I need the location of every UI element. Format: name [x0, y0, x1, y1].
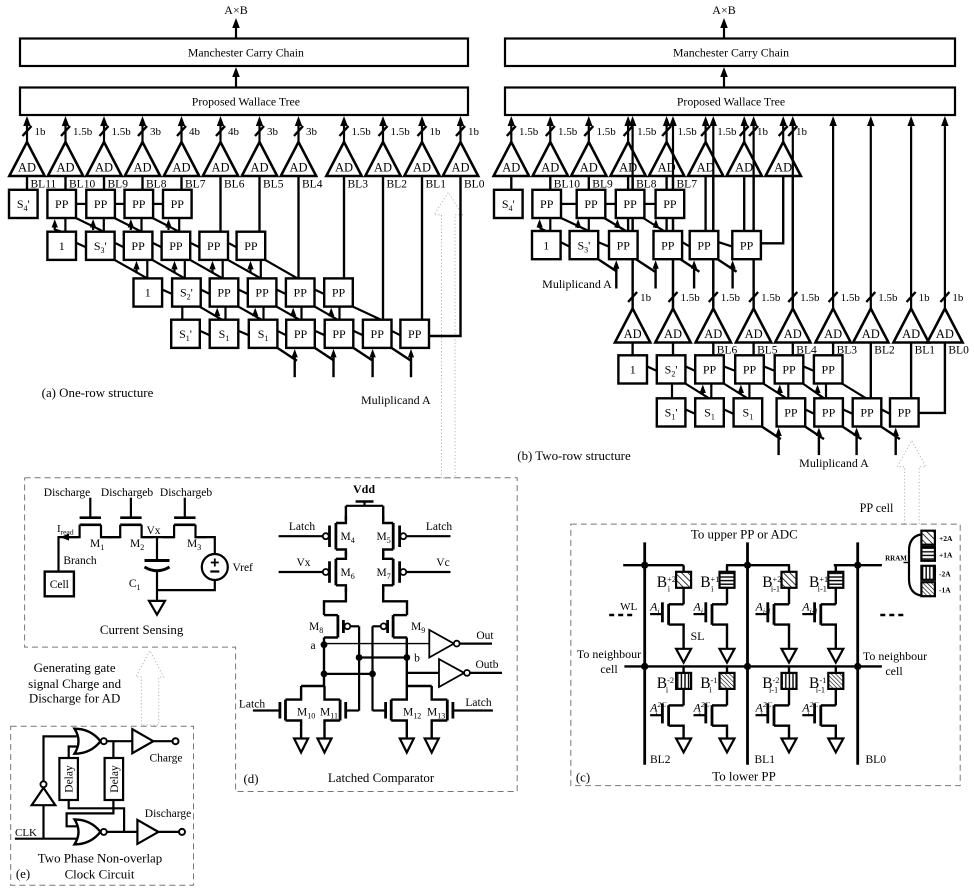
svg-text:BL0: BL0: [866, 754, 887, 766]
svg-text:BL2: BL2: [387, 178, 408, 190]
(b) row1 horizontal connectors: [561, 203, 577, 205]
Cell box: [45, 572, 74, 597]
svg-text:Out: Out: [476, 630, 494, 642]
svg-text:cell: cell: [885, 664, 903, 678]
svg-text:Two Phase Non-overlap: Two Phase Non-overlap: [38, 852, 162, 866]
svg-text:S4': S4': [17, 197, 30, 213]
svg-text:Delay: Delay: [109, 765, 121, 793]
svg-text:WL: WL: [620, 601, 637, 613]
box PP: [577, 190, 606, 218]
svg-text:Delay: Delay: [64, 765, 76, 793]
(b) lower AD slashes/labels: [628, 292, 637, 302]
svg-text:1b: 1b: [430, 126, 442, 138]
AD converter triangle: [610, 142, 645, 176]
svg-text:AD: AD: [335, 161, 353, 175]
NOR gate G1: [75, 729, 101, 754]
branch jogs to M8/M9: [324, 588, 346, 615]
outb tap from b vertical: [407, 672, 439, 674]
AD converter triangle: [494, 142, 529, 176]
svg-text:PP: PP: [217, 286, 231, 300]
svg-text:PP: PP: [207, 239, 221, 253]
svg-text:Latch: Latch: [289, 521, 315, 533]
svg-text:B-1i-1: B-1i-1: [809, 675, 826, 694]
AD converter triangle: [86, 142, 121, 176]
inverter to Discharge: [137, 820, 158, 844]
top rail 1: [623, 564, 683, 566]
AD column BL3 (a): [343, 124, 345, 142]
arrow wallace->manchester (b): [723, 75, 725, 88]
AD converter triangle: [815, 309, 850, 343]
row4 slant connectors (a): [200, 331, 210, 336]
svg-text:BL3: BL3: [348, 178, 369, 190]
a-rail2: [324, 673, 373, 675]
svg-text:PP: PP: [332, 327, 346, 341]
svg-text:1.5b: 1.5b: [721, 292, 741, 304]
Manchester Carry Chain box (b): [505, 39, 955, 67]
svg-text:PP: PP: [740, 238, 754, 252]
AD column BL10 (a): [64, 124, 66, 142]
svg-text:PP: PP: [743, 363, 757, 377]
svg-text:BL5: BL5: [263, 178, 284, 190]
svg-text:A×B: A×B: [712, 3, 735, 17]
box PP: [814, 398, 843, 426]
AD converter triangle: [571, 142, 606, 176]
svg-text:BL1: BL1: [755, 754, 776, 766]
(b) gap row1-row2: [549, 218, 551, 231]
Proposed Wallace Tree box (a): [20, 88, 468, 116]
box PP: [162, 232, 191, 260]
svg-text:RRAM: RRAM: [885, 555, 907, 563]
svg-text:B-2i-1: B-2i-1: [762, 675, 779, 694]
box PP: [286, 320, 315, 348]
svg-text:4b: 4b: [228, 126, 240, 138]
svg-text:1.5b: 1.5b: [391, 126, 411, 138]
svg-text:-1A: -1A: [939, 586, 951, 595]
box PP: [363, 320, 392, 348]
node a + rails: [323, 638, 325, 687]
svg-text:1.5b: 1.5b: [878, 292, 898, 304]
svg-text:AD: AD: [289, 161, 307, 175]
AD converter triangle: [736, 309, 771, 343]
svg-text:BL6: BL6: [224, 178, 245, 190]
svg-text:(b) Two-row structure: (b) Two-row structure: [517, 449, 631, 463]
svg-text:-2A: -2A: [939, 569, 951, 578]
svg-text:AD: AD: [413, 161, 431, 175]
AD converter triangle: [281, 142, 316, 176]
svg-text:AD: AD: [784, 327, 802, 341]
svg-text:PP: PP: [782, 363, 796, 377]
box PP: [732, 231, 761, 259]
svg-text:BL1: BL1: [426, 178, 447, 190]
box PP: [890, 398, 919, 426]
box PP: [237, 232, 266, 260]
svg-text:S2': S2': [180, 286, 193, 302]
transistor M2: [120, 516, 141, 519]
BL0 L-connector (a): [429, 176, 461, 336]
svg-text:AD: AD: [580, 161, 598, 175]
transistor M3: [174, 516, 195, 519]
AD converter triangle: [125, 142, 160, 176]
(e) dashed box: [11, 726, 194, 885]
RRAM cell B-2 i-1 bottom row: [782, 673, 797, 689]
svg-text:1b: 1b: [796, 126, 808, 138]
(b) multiplicand A arrows below row2: [615, 266, 617, 288]
(b) upper tri input lines: [510, 176, 512, 190]
svg-text:S3': S3': [577, 238, 590, 254]
box PP: [853, 398, 882, 426]
b rail: [359, 656, 407, 658]
svg-text:Vx: Vx: [146, 525, 160, 537]
svg-text:PP: PP: [784, 406, 798, 420]
AD column BL9 (a): [103, 124, 105, 142]
svg-text:PP: PP: [822, 406, 836, 420]
dashed outline current-sensing + (d): [25, 478, 518, 792]
box PP: [324, 278, 353, 306]
AD converter triangle: [853, 309, 888, 343]
(b) row2 slants: [561, 242, 570, 247]
svg-text:1.5b: 1.5b: [519, 126, 539, 138]
Vref bottom return wire: [157, 580, 215, 590]
svg-text:AD: AD: [697, 161, 715, 175]
AD column BL8 (a): [141, 124, 143, 142]
svg-text:AD: AD: [211, 161, 229, 175]
box S1: [210, 320, 239, 348]
svg-text:AD: AD: [624, 327, 642, 341]
Outb inverter: [439, 659, 464, 687]
svg-text:Manchester Carry Chain: Manchester Carry Chain: [673, 45, 789, 59]
AD converter triangle: [775, 309, 810, 343]
svg-text:PP: PP: [55, 197, 69, 211]
box S4': [494, 190, 523, 218]
AD converter triangle: [688, 142, 723, 176]
svg-text:To upper PP or ADC: To upper PP or ADC: [691, 528, 798, 542]
svg-text:To neighbour: To neighbour: [863, 649, 927, 663]
AD converter triangle: [927, 309, 962, 343]
svg-text:AD: AD: [451, 161, 469, 175]
M8 gate wire down to b-rail and M11 gate: [358, 626, 360, 710]
box PP: [777, 398, 806, 426]
svg-text:Dischargeb: Dischargeb: [160, 487, 212, 499]
top rail 2: [726, 564, 790, 566]
(b) gap row3-row4: [671, 384, 673, 399]
top rail: [346, 505, 383, 507]
svg-text:BL7: BL7: [185, 178, 206, 190]
Iread branch wire + cell: [59, 537, 79, 572]
svg-text:BL8: BL8: [146, 178, 167, 190]
wire M1-M2: [101, 536, 120, 538]
AD column BL6 (a): [219, 124, 221, 142]
svg-text:A×B: A×B: [224, 3, 247, 17]
svg-text:S1': S1': [179, 327, 192, 343]
wire M2-M3: Vx node: [142, 536, 175, 538]
box S2': [172, 278, 201, 306]
NOR1 output down to Delay2: [112, 741, 114, 758]
svg-text:a: a: [310, 640, 315, 652]
AD converter triangle: [655, 309, 690, 343]
svg-text:1b: 1b: [35, 126, 47, 138]
AD converter triangle: [443, 142, 478, 176]
box PP: [286, 278, 315, 306]
RRAM cell B+1 i-1 top row: [828, 572, 843, 588]
(c) dashed box: [571, 524, 960, 786]
svg-text:Discharge: Discharge: [145, 808, 191, 820]
svg-text:AD: AD: [56, 161, 74, 175]
svg-text:BL2: BL2: [874, 345, 895, 357]
gap row3-row4 connections (a): [181, 307, 183, 320]
svg-text:AD: AD: [541, 161, 559, 175]
(b) row4 slants: [685, 409, 695, 414]
svg-text:AD: AD: [774, 161, 792, 175]
Proposed Wallace Tree box (b): [505, 88, 955, 116]
AD converter triangle: [766, 142, 801, 176]
svg-text:AD: AD: [502, 161, 520, 175]
svg-text:Charge: Charge: [149, 753, 182, 765]
svg-text:AD: AD: [664, 327, 682, 341]
svg-text:Muliplicand A: Muliplicand A: [361, 393, 431, 407]
svg-text:S3': S3': [94, 239, 107, 255]
box S1': [657, 398, 686, 426]
AD converter triangle: [164, 142, 199, 176]
svg-text:+1A: +1A: [939, 550, 953, 559]
svg-text:AD: AD: [172, 161, 190, 175]
box S1: [695, 398, 724, 426]
box PP: [325, 320, 354, 348]
svg-text:S4': S4': [502, 197, 515, 213]
Delay2 bottom to NOR2 upper input: [67, 800, 114, 826]
svg-text:PP: PP: [697, 238, 711, 252]
box PP: [199, 232, 228, 260]
box S1': [171, 320, 200, 348]
svg-text:1.5b: 1.5b: [761, 292, 781, 304]
svg-text:Generating gate: Generating gate: [34, 661, 116, 675]
svg-text:BL1: BL1: [915, 345, 936, 357]
svg-text:Muliplicand A: Muliplicand A: [799, 456, 869, 470]
bit line BL0: [856, 542, 859, 764]
AD converter triangle: [326, 142, 361, 176]
svg-text:B+2i-1: B+2i-1: [762, 574, 781, 593]
Delay1 bottom from Discharge net: [69, 800, 124, 832]
transistors M10 M11: [301, 685, 324, 687]
AD column BL7 (a): [180, 124, 182, 142]
row1 horizontal connectors (a): [76, 203, 86, 205]
Out inverter: [429, 630, 454, 658]
svg-text:BL8: BL8: [636, 178, 657, 190]
svg-text:Clock Circuit: Clock Circuit: [65, 868, 135, 882]
(b) upper AD output arrows: [510, 124, 512, 142]
svg-text:AD: AD: [619, 161, 637, 175]
svg-text:1b: 1b: [952, 292, 964, 304]
svg-text:1b: 1b: [640, 292, 652, 304]
AD column BL2 (a): [382, 124, 384, 142]
svg-text:BL10: BL10: [69, 178, 95, 190]
row3 slant connectors (a): [162, 290, 172, 295]
svg-text:AD: AD: [824, 327, 842, 341]
box S1: [249, 320, 278, 348]
svg-text:To neighbour: To neighbour: [577, 647, 641, 661]
svg-text:PP: PP: [661, 238, 675, 252]
svg-text:1b: 1b: [919, 292, 931, 304]
box PP: [86, 190, 115, 218]
AD converter triangle: [48, 142, 83, 176]
AD converter triangle: [533, 142, 568, 176]
svg-text:1.5b: 1.5b: [73, 126, 93, 138]
bit line BL2: [643, 542, 646, 764]
row2 slant connectors (a): [76, 243, 86, 248]
svg-text:1.5b: 1.5b: [112, 126, 132, 138]
Vref source: [202, 554, 228, 580]
svg-text:PP: PP: [822, 363, 836, 377]
AD converter triangle: [9, 142, 44, 176]
svg-text:+2A: +2A: [939, 534, 953, 543]
svg-text:Latch: Latch: [239, 699, 265, 711]
svg-text:AD: AD: [704, 327, 722, 341]
box PP: [695, 355, 724, 383]
svg-text:AD: AD: [745, 327, 763, 341]
svg-text:1.5b: 1.5b: [637, 126, 657, 138]
svg-text:1.5b: 1.5b: [352, 126, 372, 138]
svg-text:PP: PP: [860, 406, 874, 420]
transistor M1: [80, 516, 101, 519]
capacitor C1: [156, 537, 158, 560]
svg-text:PP: PP: [371, 327, 385, 341]
wire M3 right to Vref: [196, 537, 215, 554]
M9 gate wire down to a-rail2 and M12 gate: [371, 626, 373, 710]
svg-text:1.5b: 1.5b: [558, 126, 578, 138]
box PP: [125, 190, 154, 218]
transistor M8: [336, 615, 339, 637]
svg-text:Latch: Latch: [426, 521, 452, 533]
svg-text:B+1i-1: B+1i-1: [809, 574, 828, 593]
svg-text:AD: AD: [374, 161, 392, 175]
box 1: [532, 231, 561, 259]
box PP: [656, 190, 685, 218]
gap row2-row3 connections (a): [146, 260, 148, 279]
svg-text:BL0: BL0: [948, 345, 969, 357]
svg-text:1.5b: 1.5b: [841, 292, 861, 304]
AD converter triangle: [242, 142, 277, 176]
AD converter triangle: [649, 142, 684, 176]
svg-text:(d): (d): [243, 772, 258, 786]
svg-text:Outb: Outb: [476, 659, 499, 671]
box S4': [9, 190, 38, 218]
box S2': [657, 355, 686, 383]
svg-text:Cell: Cell: [50, 579, 69, 591]
RRAM cell B-2 i bottom row: [676, 673, 691, 689]
svg-text:PP: PP: [623, 197, 637, 211]
RRAM cell B+1 i top row: [720, 572, 735, 588]
svg-text:Branch: Branch: [63, 555, 96, 567]
bottom rail: [624, 665, 882, 667]
svg-text:BL0: BL0: [464, 178, 485, 190]
svg-text:To lower PP: To lower PP: [712, 770, 776, 784]
svg-text:S1': S1': [665, 406, 678, 422]
transistor M7: [383, 552, 393, 559]
svg-text:PP: PP: [540, 197, 554, 211]
transistor M4: [345, 506, 347, 520]
arrow to AxB (a): [235, 26, 237, 39]
box PP: [814, 355, 843, 383]
AD column BL0 (a): [459, 124, 461, 142]
svg-text:AD: AD: [902, 327, 920, 341]
AD column BL4 (a): [297, 124, 299, 142]
AD column BL1 (a): [421, 124, 423, 142]
svg-text:1: 1: [543, 238, 549, 252]
svg-text:CLK: CLK: [15, 827, 37, 839]
svg-text:cell: cell: [600, 662, 618, 676]
svg-text:1: 1: [630, 363, 636, 377]
NOR gate G2: [75, 819, 101, 844]
svg-text:Dischargeb: Dischargeb: [101, 487, 153, 499]
delay1 top to NOR1 lower input: [69, 747, 77, 759]
AD converter triangle: [696, 309, 731, 343]
Delay box 2: [105, 758, 124, 800]
inverted clk to NOR1: [44, 736, 77, 781]
svg-text:signal Charge and: signal Charge and: [28, 677, 121, 691]
(b) multiplicand A arrows below row4: [777, 434, 779, 456]
box S1: [734, 398, 763, 426]
box S3': [86, 232, 115, 260]
svg-text:PP: PP: [169, 239, 183, 253]
transistor M6: [336, 552, 346, 559]
bit line BL1: [746, 542, 749, 764]
Manchester Carry Chain box (a): [20, 39, 468, 67]
arrow to AxB (b): [723, 26, 725, 39]
box PP: [609, 231, 638, 259]
RRAM cell B+2 i top row: [676, 572, 691, 588]
transistors M12 M13: [407, 685, 432, 687]
svg-text:PP: PP: [703, 363, 717, 377]
svg-text:AD: AD: [250, 161, 268, 175]
svg-text:PP cell: PP cell: [860, 501, 894, 515]
box 1: [618, 355, 647, 383]
inverter pointing up (CLK): [32, 788, 56, 805]
AD converter triangle: [203, 142, 238, 176]
box PP: [735, 355, 764, 383]
box S3': [570, 231, 599, 259]
transistor M5: [382, 506, 384, 520]
svg-text:Current Sensing: Current Sensing: [100, 623, 184, 637]
svg-text:BL9: BL9: [592, 178, 613, 190]
AD column BL11 (a): [26, 124, 28, 142]
svg-text:1.5b: 1.5b: [681, 292, 701, 304]
svg-text:SL: SL: [690, 629, 704, 643]
ground symbol: [149, 601, 165, 615]
RRAM legend: [909, 535, 921, 596]
svg-text:3b: 3b: [150, 126, 162, 138]
box PP: [210, 278, 239, 306]
box 1: [47, 232, 76, 260]
box PP: [616, 190, 645, 218]
svg-text:Vc: Vc: [436, 557, 449, 569]
svg-text:Vref: Vref: [233, 562, 254, 574]
svg-text:PP: PP: [255, 286, 269, 300]
svg-text:(c): (c): [576, 771, 590, 785]
svg-text:Vx: Vx: [296, 557, 310, 569]
AD converter triangle: [365, 142, 400, 176]
RRAM cell B+2 i-1 top row: [782, 572, 797, 588]
(b) L1-L5 pass-through column segments: [631, 176, 633, 309]
AD converter triangle: [893, 309, 928, 343]
inverter/buffer to Charge: [132, 729, 153, 753]
hollow dotted callout arrow (a)->(d): [434, 192, 462, 478]
right dashes: [880, 614, 906, 617]
svg-text:(a) One-row structure: (a) One-row structure: [42, 386, 154, 400]
svg-text:1: 1: [59, 239, 65, 253]
box 1: [134, 278, 163, 306]
svg-text:BL9: BL9: [108, 178, 129, 190]
svg-text:3b: 3b: [267, 126, 279, 138]
box PP: [654, 231, 683, 259]
